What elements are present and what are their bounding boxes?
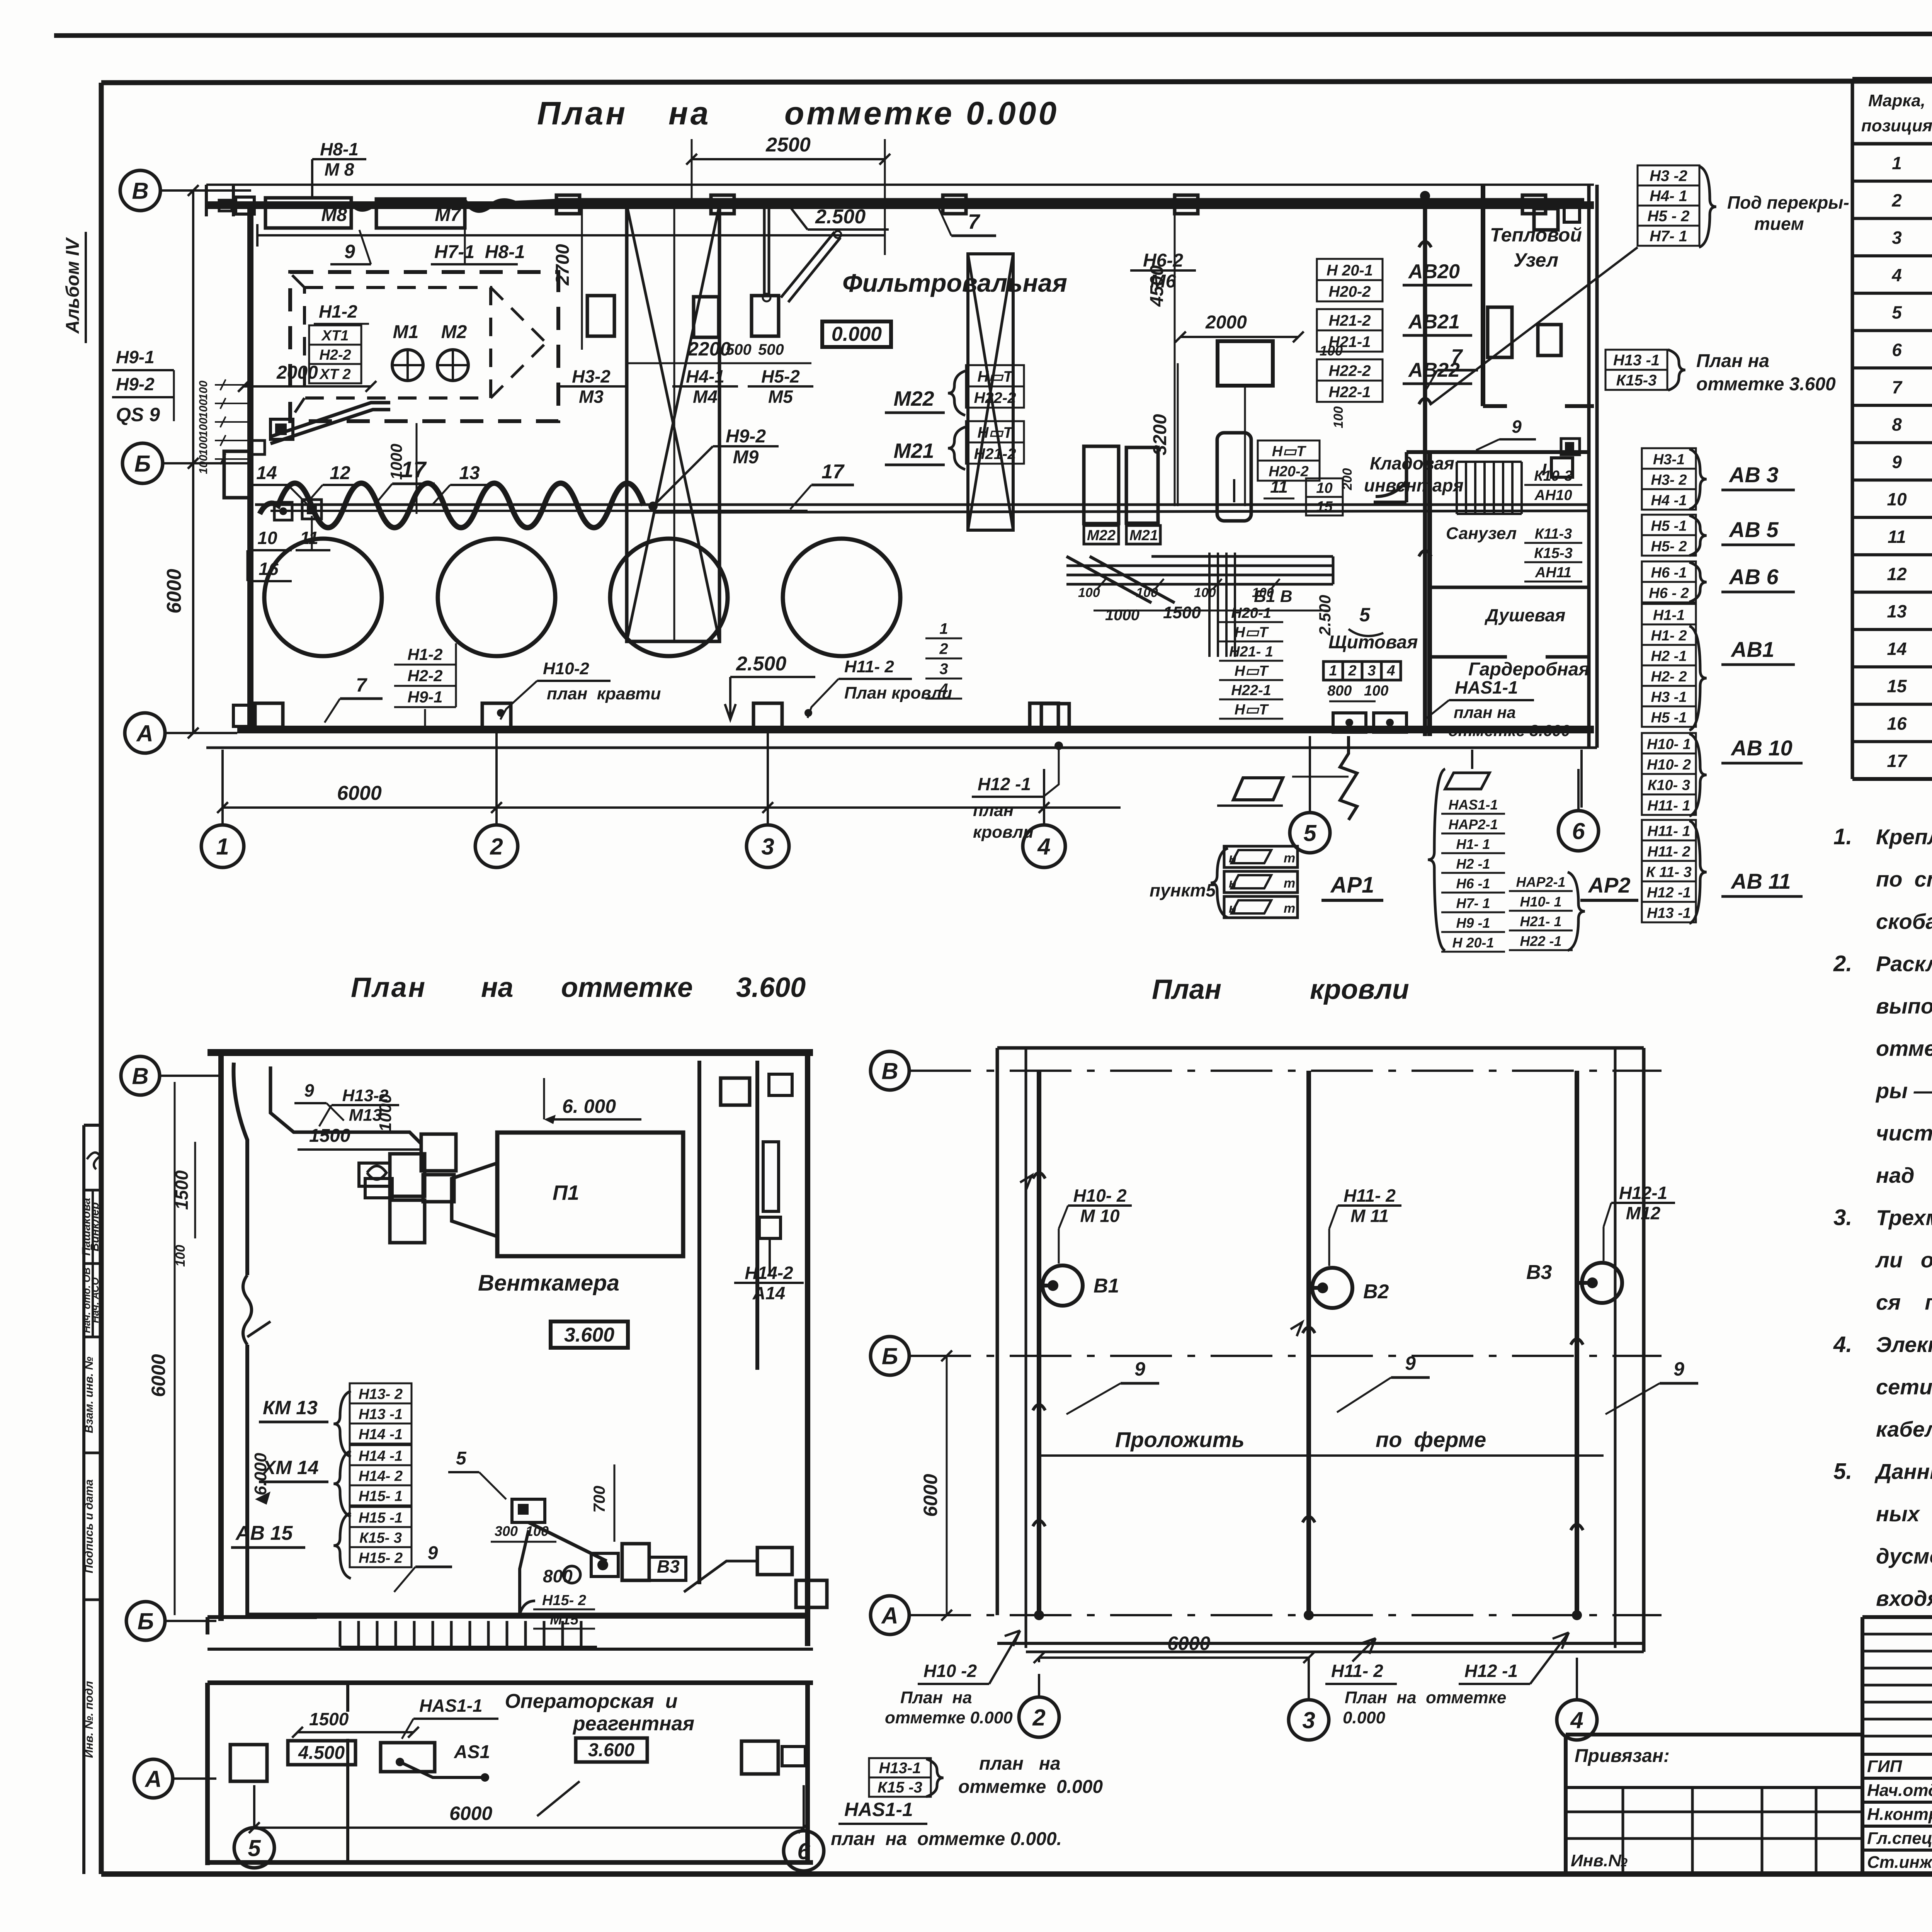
svg-text:12: 12 bbox=[1887, 564, 1907, 584]
circle 5 bottom36 bbox=[234, 1785, 274, 1868]
svg-text:инвентаря: инвентаря bbox=[1364, 475, 1464, 495]
svg-text:10: 10 bbox=[1887, 489, 1907, 509]
svg-text:К15- 3: К15- 3 bbox=[359, 1530, 402, 1546]
svg-text:Н▭Т: Н▭Т bbox=[1272, 444, 1306, 460]
svg-text:Гардеробная: Гардеробная bbox=[1468, 659, 1590, 680]
svg-text:АВ 15: АВ 15 bbox=[235, 1522, 293, 1544]
svg-text:3: 3 bbox=[1892, 228, 1902, 248]
svg-text:Н12 -1: Н12 -1 bbox=[978, 774, 1031, 794]
column boxes top wall bbox=[556, 195, 1546, 214]
dimension 2700 rotated bbox=[553, 205, 582, 350]
svg-text:9: 9 bbox=[1405, 1352, 1416, 1374]
dim 1500 operatorskaya bbox=[292, 1709, 419, 1738]
svg-text:Б1 В: Б1 В bbox=[1254, 587, 1293, 606]
svg-text:1000: 1000 bbox=[376, 1094, 395, 1132]
svg-text:Н14 -1: Н14 -1 bbox=[359, 1448, 403, 1464]
svg-text:Н20-2: Н20-2 bbox=[1329, 283, 1371, 300]
svg-text:дусмотрены для варианта: дусмотрены для варианта питания насосов, bbox=[1876, 1544, 1932, 1568]
thin line under M8 M7 boxes bbox=[257, 224, 885, 247]
krovli bottom callout H12-1 bbox=[1459, 1633, 1569, 1684]
svg-text:Н2 -1: Н2 -1 bbox=[1456, 856, 1490, 872]
svg-text:Н 20-1: Н 20-1 bbox=[1327, 262, 1373, 279]
svg-text:М5: М5 bbox=[768, 386, 793, 406]
svg-text:Н11- 1: Н11- 1 bbox=[1647, 798, 1690, 814]
svg-text:АВ1: АВ1 bbox=[1730, 637, 1774, 662]
svg-text:Н5 -1: Н5 -1 bbox=[1651, 518, 1687, 534]
svg-text:Н4 -1: Н4 -1 bbox=[1651, 492, 1687, 509]
callout H14-2 A14 bbox=[734, 1142, 804, 1303]
svg-text:2000: 2000 bbox=[276, 362, 318, 383]
svg-text:3.600: 3.600 bbox=[736, 972, 806, 1003]
svg-text:1500: 1500 bbox=[1163, 603, 1201, 622]
svg-text:1: 1 bbox=[216, 834, 229, 860]
svg-text:3: 3 bbox=[939, 661, 948, 678]
svg-text:3: 3 bbox=[1367, 663, 1376, 679]
svg-text:Проложить: Проложить bbox=[1115, 1427, 1245, 1452]
cable drop to B3 bbox=[520, 1522, 649, 1615]
svg-text:Н21- 1: Н21- 1 bbox=[1229, 644, 1273, 660]
svg-text:В3: В3 bbox=[1526, 1261, 1552, 1284]
callout H12-1 plan krovli below wall bbox=[972, 742, 1063, 842]
privyazan box bbox=[1566, 1735, 1862, 1873]
svg-text:Н1-2: Н1-2 bbox=[407, 645, 442, 663]
callout H3-2 M3 bbox=[556, 355, 626, 406]
svg-text:АН10: АН10 bbox=[1534, 487, 1572, 503]
svg-text:14: 14 bbox=[256, 463, 277, 483]
svg-text:Операторская и: Операторская и bbox=[505, 1690, 677, 1713]
svg-text:АР2: АР2 bbox=[1588, 873, 1631, 897]
callout group M22 bbox=[885, 365, 1024, 415]
callout H_T H20-2 bbox=[1258, 440, 1343, 515]
svg-text:2: 2 bbox=[1032, 1705, 1045, 1731]
svg-text:кровли: кровли bbox=[973, 823, 1034, 842]
stack H20-x AB20 AB21 AB22 bbox=[1317, 259, 1472, 402]
label 9 and 6.000 top36 bbox=[294, 1078, 641, 1124]
svg-text:Н10-2: Н10-2 bbox=[543, 659, 589, 678]
svg-text:чистого пола, концы т: чистого пола, концы труб вывести на 100 … bbox=[1876, 1121, 1932, 1145]
svg-text:КМ 13: КМ 13 bbox=[263, 1397, 318, 1418]
stack H9-1 H9-2 QS9 bbox=[112, 347, 174, 425]
svg-text:500: 500 bbox=[726, 341, 752, 358]
svg-text:13: 13 bbox=[459, 463, 480, 483]
svg-text:100: 100 bbox=[1364, 683, 1388, 699]
level 4.500 box bbox=[288, 1741, 355, 1765]
diagonal cable pair left of bundle bbox=[1066, 556, 1175, 603]
dim 1000 rotated near dashed bbox=[387, 423, 417, 514]
svg-text:Н22-1: Н22-1 bbox=[1231, 682, 1271, 699]
svg-text:Н2-2: Н2-2 bbox=[407, 667, 442, 685]
small dims 300 100 bbox=[491, 1523, 556, 1542]
svg-text:Н9 -1: Н9 -1 bbox=[1456, 915, 1490, 931]
punkt5 parallelogram stack bbox=[1150, 846, 1298, 918]
svg-text:НАS1-1: НАS1-1 bbox=[1455, 677, 1518, 697]
stack H1-2 H2-2 H9-1 bbox=[394, 643, 456, 728]
AP1 big stack bbox=[1428, 769, 1505, 952]
svg-text:Н10- 2: Н10- 2 bbox=[1647, 757, 1691, 773]
svg-text:М4: М4 bbox=[693, 386, 718, 406]
labels H7-1 H8-1 bbox=[431, 229, 525, 264]
svg-text:100: 100 bbox=[197, 418, 210, 437]
svg-text:н: н bbox=[1229, 901, 1237, 916]
6.000 rotated mid bbox=[251, 1452, 270, 1505]
svg-text:В1: В1 bbox=[1094, 1275, 1119, 1297]
svg-text:Н15- 2: Н15- 2 bbox=[542, 1592, 586, 1609]
svg-text:Нач. АСО: Нач. АСО bbox=[89, 1277, 101, 1323]
svg-text:7: 7 bbox=[356, 674, 367, 696]
svg-text:10: 10 bbox=[257, 528, 277, 548]
krovli 6000 vert dim bbox=[920, 1350, 952, 1621]
XM14 stack bbox=[259, 1445, 412, 1517]
svg-text:на: на bbox=[668, 95, 711, 131]
svg-text:2000: 2000 bbox=[1205, 312, 1247, 333]
svg-text:Н▭Т: Н▭Т bbox=[1235, 624, 1269, 641]
svg-text:1: 1 bbox=[1892, 153, 1902, 173]
svg-text:Н22-2: Н22-2 bbox=[974, 389, 1016, 406]
label 2.500 with arrow bbox=[789, 206, 889, 230]
svg-text:Н13 -1: Н13 -1 bbox=[1647, 905, 1691, 921]
svg-text:М21: М21 bbox=[1129, 527, 1158, 544]
krovli axis Б bbox=[871, 1337, 1662, 1375]
dim 6000 bottom36 bbox=[249, 1803, 809, 1833]
svg-text:Н1-1: Н1-1 bbox=[1653, 607, 1685, 623]
svg-text:М22: М22 bbox=[1087, 527, 1116, 544]
right big stack AB11 bbox=[1642, 820, 1803, 923]
svg-text:Н1-2: Н1-2 bbox=[319, 301, 357, 321]
column circle 4 bbox=[1023, 769, 1065, 867]
svg-text:8: 8 bbox=[1892, 415, 1902, 435]
svg-text:отметке: отметке bbox=[561, 972, 693, 1003]
svg-text:ли от краев безнапорных: ли от краев безнапорных гидроциклонов яв… bbox=[1875, 1248, 1932, 1272]
stairs hatch kladovaya bbox=[1457, 462, 1522, 514]
svg-text:4: 4 bbox=[1037, 834, 1050, 860]
column circle 5 bbox=[1290, 813, 1330, 853]
stack H13-1 K15-3 plan 3.600 bbox=[1605, 350, 1836, 395]
svg-text:НАS1-1: НАS1-1 bbox=[419, 1696, 483, 1716]
top small boxes 3.600 bbox=[365, 1074, 792, 1202]
svg-text:М 8: М 8 bbox=[325, 159, 354, 179]
AP2 second stack bbox=[1509, 872, 1585, 951]
leader to diag line36 bbox=[537, 1781, 580, 1816]
svg-text:Винклер: Винклер bbox=[88, 1202, 101, 1251]
svg-text:Н5- 2: Н5- 2 bbox=[1651, 538, 1687, 554]
svg-text:6000: 6000 bbox=[148, 1354, 169, 1397]
svg-text:сети, не используемые п: сети, не используемые при привязке , на … bbox=[1876, 1375, 1932, 1399]
svg-text:отметке 0.000: отметке 0.000 bbox=[885, 1708, 1013, 1727]
svg-text:5: 5 bbox=[1359, 604, 1371, 626]
dimension 2200 bbox=[626, 338, 811, 363]
svg-text:1500: 1500 bbox=[309, 1126, 350, 1146]
label 9 k1 bbox=[1066, 1358, 1159, 1414]
AS1 cabinet bbox=[381, 1742, 490, 1782]
svg-text:кабельной раскладки выче: кабельной раскладки вычеркиваются. bbox=[1876, 1417, 1932, 1441]
left wall step detail bbox=[216, 451, 251, 498]
svg-text:Фильтровальная: Фильтровальная bbox=[842, 269, 1067, 297]
svg-text:АВ20: АВ20 bbox=[1408, 260, 1460, 283]
rounded corner col4 bbox=[1041, 704, 1069, 728]
svg-text:9: 9 bbox=[304, 1080, 314, 1100]
svg-text:14: 14 bbox=[1887, 639, 1906, 659]
svg-text:Н21-1: Н21-1 bbox=[1329, 333, 1371, 350]
svg-text:0.000: 0.000 bbox=[966, 95, 1059, 131]
svg-text:план на: план на bbox=[1454, 703, 1516, 721]
dimension 4500 rotated bbox=[1147, 193, 1175, 506]
labels 500 500 bbox=[726, 341, 784, 358]
svg-text:2: 2 bbox=[939, 641, 948, 658]
diagonal cable double bbox=[270, 403, 390, 444]
svg-text:4.: 4. bbox=[1833, 1332, 1852, 1357]
corner equipment boxes36 bbox=[230, 1741, 805, 1781]
svg-text:6000: 6000 bbox=[449, 1803, 492, 1824]
svg-text:отметке 3.600: отметке 3.600 bbox=[1696, 374, 1836, 395]
svg-text:16: 16 bbox=[1887, 713, 1907, 733]
svg-text:Гл.спец.: Гл.спец. bbox=[1867, 1829, 1932, 1848]
svg-text:3.600: 3.600 bbox=[564, 1324, 614, 1346]
svg-text:100: 100 bbox=[197, 399, 210, 418]
svg-text:700: 700 bbox=[590, 1486, 608, 1513]
svg-text:100: 100 bbox=[197, 381, 210, 400]
krovli left stack H13-1 K15-3 bbox=[869, 1758, 944, 1797]
svg-text:5: 5 bbox=[1892, 303, 1902, 323]
svg-text:Н21-2: Н21-2 bbox=[1329, 312, 1371, 329]
svg-text:7: 7 bbox=[1892, 377, 1903, 397]
svg-text:пункт5: пункт5 bbox=[1150, 880, 1216, 900]
svg-text:план кравти: план кравти bbox=[547, 684, 661, 703]
svg-text:Кладовая: Кладовая bbox=[1370, 453, 1454, 473]
svg-text:план: план bbox=[973, 801, 1014, 820]
column boxes bottom wall bbox=[233, 703, 1058, 728]
vertical riser to 5 bbox=[1292, 736, 1357, 820]
dim 1500 horizontal bbox=[298, 1126, 421, 1150]
svg-text:т: т bbox=[1284, 851, 1295, 866]
vent circle B3 bbox=[1526, 1261, 1622, 1303]
svg-text:план на отметке 0.000.: план на отметке 0.000. bbox=[831, 1829, 1062, 1849]
svg-text:Н13-1: Н13-1 bbox=[879, 1760, 921, 1777]
svg-text:выполнить до сооружения: выполнить до сооружения чистого пола на bbox=[1876, 994, 1932, 1018]
wall top thin line bbox=[206, 184, 1594, 186]
svg-text:АВ 3: АВ 3 bbox=[1728, 463, 1779, 487]
svg-text:Н3-1: Н3-1 bbox=[1653, 451, 1685, 468]
left stamp strip boxes bbox=[80, 1125, 101, 1874]
small boxes left top bbox=[219, 197, 254, 214]
svg-text:Н12 -1: Н12 -1 bbox=[1647, 884, 1691, 901]
svg-text:П1: П1 bbox=[553, 1181, 579, 1204]
svg-text:Душевая: Душевая bbox=[1484, 605, 1565, 625]
svg-text:отметке 3.600: отметке 3.600 bbox=[1448, 721, 1570, 740]
svg-text:Н15- 2: Н15- 2 bbox=[359, 1550, 403, 1566]
svg-text:Н7- 1: Н7- 1 bbox=[1456, 895, 1490, 911]
svg-text:0.000: 0.000 bbox=[1343, 1708, 1386, 1727]
svg-text:А: А bbox=[881, 1603, 898, 1629]
svg-text:2.: 2. bbox=[1833, 951, 1852, 976]
grid axis Б bbox=[122, 443, 250, 483]
level box 3.600 bbox=[551, 1321, 628, 1348]
svg-text:отметке 0.000: отметке 0.000 bbox=[958, 1777, 1103, 1797]
specification table grid bbox=[1852, 79, 1932, 779]
svg-text:Н11- 2: Н11- 2 bbox=[844, 657, 894, 676]
svg-text:1500: 1500 bbox=[309, 1709, 349, 1729]
svg-text:Н6 - 2: Н6 - 2 bbox=[1649, 585, 1689, 601]
callout group M21 bbox=[885, 421, 1024, 469]
svg-text:ХТ1: ХТ1 bbox=[321, 328, 349, 344]
small 100 dims cluster bbox=[197, 379, 251, 474]
album IV rotated label bbox=[63, 232, 86, 343]
svg-text:13: 13 bbox=[1887, 601, 1907, 621]
svg-text:Трехметровая зона по в: Трехметровая зона по вертикали и горизон… bbox=[1876, 1206, 1932, 1230]
svg-text:2200: 2200 bbox=[687, 338, 731, 360]
svg-text:6000: 6000 bbox=[1167, 1633, 1210, 1654]
svg-text:В2: В2 bbox=[1363, 1281, 1389, 1303]
svg-text:10: 10 bbox=[1316, 480, 1332, 496]
svg-text:2: 2 bbox=[1348, 663, 1356, 679]
label 7 top bbox=[939, 209, 996, 236]
right big stack AB5 bbox=[1642, 515, 1795, 556]
grid circle B roof36 bbox=[121, 1056, 221, 1095]
riser from plan to AP1 stack bbox=[1472, 750, 1582, 808]
svg-text:н: н bbox=[1229, 876, 1237, 891]
right big stack AB10 bbox=[1642, 733, 1803, 816]
p36 lower band bbox=[216, 1616, 808, 1619]
svg-text:АВ 6: АВ 6 bbox=[1728, 565, 1779, 589]
label 9 k3 bbox=[1605, 1358, 1698, 1414]
svg-text:6000: 6000 bbox=[920, 1474, 941, 1517]
svg-text:скобами и полосой с: скобами и полосой с шагом не более 800 м… bbox=[1876, 909, 1932, 934]
svg-text:1000: 1000 bbox=[387, 444, 405, 480]
label 7 with leader right bbox=[1426, 345, 1478, 390]
circle 6 bottom36 bbox=[784, 1785, 824, 1871]
svg-text:200: 200 bbox=[1340, 468, 1355, 491]
svg-text:1000: 1000 bbox=[1105, 607, 1139, 624]
svg-text:Узел: Узел bbox=[1514, 249, 1558, 271]
svg-text:4500: 4500 bbox=[1147, 265, 1167, 307]
svg-text:Привязан:: Привязан: bbox=[1575, 1746, 1670, 1766]
svg-text:Нач.отд.: Нач.отд. bbox=[1867, 1781, 1932, 1800]
svg-text:План кровли: План кровли bbox=[844, 684, 952, 702]
svg-text:план на: план на bbox=[979, 1753, 1061, 1774]
wall right double bbox=[1587, 185, 1591, 748]
svg-text:2.500: 2.500 bbox=[736, 653, 786, 675]
svg-text:QS 9: QS 9 bbox=[116, 404, 160, 425]
svg-text:Н14- 2: Н14- 2 bbox=[359, 1468, 403, 1485]
paper top edge line bbox=[54, 33, 1932, 36]
svg-text:отметке: отметке bbox=[784, 95, 954, 131]
KM13 stack bbox=[259, 1383, 412, 1457]
callout HAS1-1 plan 3600 bbox=[1426, 677, 1570, 740]
svg-text:6: 6 bbox=[1892, 340, 1902, 360]
boxed stacks K10-3 AN10 bbox=[1524, 468, 1582, 504]
svg-text:9: 9 bbox=[1512, 417, 1522, 437]
title block outer bbox=[1862, 1617, 1932, 1874]
svg-text:входящих в комплект мое: входящих в комплект моечных установок. bbox=[1876, 1586, 1932, 1611]
svg-text:АВ 11: АВ 11 bbox=[1730, 869, 1791, 893]
svg-text:Н21- 1: Н21- 1 bbox=[1520, 913, 1561, 929]
dim 2.500 rotated schitovaya bbox=[1316, 595, 1334, 636]
svg-text:Н7-1 Н8-1: Н7-1 Н8-1 bbox=[434, 242, 525, 262]
svg-text:К15-3: К15-3 bbox=[1534, 545, 1572, 561]
notes paragraph block bbox=[1833, 824, 1932, 1611]
svg-text:9: 9 bbox=[344, 241, 355, 262]
svg-text:Раскладку труб для э: Раскладку труб для электропроводок в пол… bbox=[1876, 952, 1932, 976]
svg-text:2.500: 2.500 bbox=[1316, 595, 1334, 636]
callout H5-2 M5 bbox=[748, 366, 813, 406]
HAS1-1 bottom callout bbox=[831, 1799, 1062, 1849]
svg-text:т: т bbox=[1284, 876, 1295, 891]
svg-text:НАР2-1: НАР2-1 bbox=[1516, 874, 1565, 890]
svg-text:Н3 -2: Н3 -2 bbox=[1650, 168, 1687, 185]
svg-text:Н4- 1: Н4- 1 bbox=[1650, 188, 1687, 205]
svg-text:Н5 - 2: Н5 - 2 bbox=[1648, 208, 1690, 225]
leader labels 14 12 17 13 bbox=[249, 457, 489, 506]
dims 100 200 right bbox=[1320, 343, 1355, 490]
svg-text:Н8-1: Н8-1 bbox=[320, 139, 359, 159]
svg-text:100: 100 bbox=[1078, 585, 1100, 600]
svg-text:9: 9 bbox=[1673, 1358, 1684, 1380]
cable vertical v2 bbox=[1303, 1071, 1315, 1620]
callout H8-1 M8 bbox=[312, 139, 366, 198]
krovli outline bbox=[997, 1048, 1644, 1652]
svg-text:Н9-1: Н9-1 bbox=[407, 688, 442, 706]
svg-text:Тепловой: Тепловой bbox=[1490, 224, 1582, 246]
callout H12-1 M12 krovli bbox=[1604, 1183, 1675, 1261]
label H1-2 XT stack bbox=[309, 301, 369, 383]
svg-text:М12: М12 bbox=[1626, 1203, 1661, 1223]
vent circle B2 bbox=[1309, 1268, 1389, 1308]
svg-text:НАР2-1: НАР2-1 bbox=[1448, 816, 1498, 832]
top cable line inside wall bbox=[255, 200, 1584, 302]
callout H6-2 M6 bbox=[1130, 250, 1196, 292]
svg-text:АВ21: АВ21 bbox=[1408, 311, 1460, 333]
svg-text:Б: Б bbox=[134, 451, 151, 477]
svg-text:К15-3: К15-3 bbox=[1616, 372, 1657, 389]
grid axis А bbox=[125, 713, 237, 753]
bottom cable along B bbox=[247, 1548, 827, 1614]
AP1 label bbox=[1321, 872, 1383, 900]
svg-text:Н1- 2: Н1- 2 bbox=[1651, 628, 1687, 644]
svg-text:Инв. №. подл: Инв. №. подл bbox=[83, 1681, 95, 1758]
krovli bottom callout H11-2 bbox=[1325, 1638, 1506, 1727]
right big stack AB6 bbox=[1642, 561, 1795, 602]
svg-text:Н12-1: Н12-1 bbox=[1619, 1183, 1667, 1203]
svg-text:Электрооборудование и с: Электрооборудование и соответствующие bbox=[1876, 1332, 1932, 1357]
svg-text:ры — на отметке минус 5: ры — на отметке минус 50 мм от уровня bbox=[1875, 1078, 1932, 1103]
leader label 17 right bbox=[790, 461, 854, 509]
svg-text:кровли: кровли bbox=[1310, 974, 1409, 1005]
svg-text:К11-3: К11-3 bbox=[1535, 526, 1572, 542]
svg-text:4: 4 bbox=[939, 681, 948, 698]
vent circle B1 bbox=[1039, 1265, 1119, 1306]
svg-text:Крепление электрокабелей: Крепление электрокабелей , прокладываемы… bbox=[1876, 825, 1932, 849]
svg-text:Н▭Т: Н▭Т bbox=[977, 424, 1014, 441]
svg-text:Н21-2: Н21-2 bbox=[974, 446, 1016, 463]
callout H10-2 M10 krovli bbox=[1059, 1185, 1132, 1264]
svg-text:ных шкафов моечных у: ных шкафов моечных установок bbox=[1876, 1502, 1932, 1526]
hydrocyclone circles bbox=[264, 539, 382, 656]
diagonal long leader to under-ceiling stack bbox=[1430, 247, 1638, 405]
column circle 2 bbox=[475, 730, 518, 867]
svg-text:Н4-1: Н4-1 bbox=[686, 366, 724, 386]
svg-text:Н20-1: Н20-1 bbox=[1231, 605, 1271, 621]
svg-text:Н22-2: Н22-2 bbox=[1329, 362, 1371, 379]
svg-text:Н15- 1: Н15- 1 bbox=[359, 1488, 403, 1505]
svg-text:План на отметке: План на отметке bbox=[1345, 1688, 1506, 1707]
svg-text:Санузел: Санузел bbox=[1446, 524, 1517, 543]
svg-text:М22: М22 bbox=[893, 387, 934, 410]
svg-text:АВ 10: АВ 10 bbox=[1730, 736, 1793, 760]
svg-text:Н5-2: Н5-2 bbox=[761, 366, 800, 386]
small squares nodes 14 12 bbox=[274, 500, 321, 520]
svg-text:В: В bbox=[881, 1058, 898, 1084]
svg-text:т: т bbox=[1284, 901, 1295, 916]
svg-text:2: 2 bbox=[1891, 190, 1902, 210]
